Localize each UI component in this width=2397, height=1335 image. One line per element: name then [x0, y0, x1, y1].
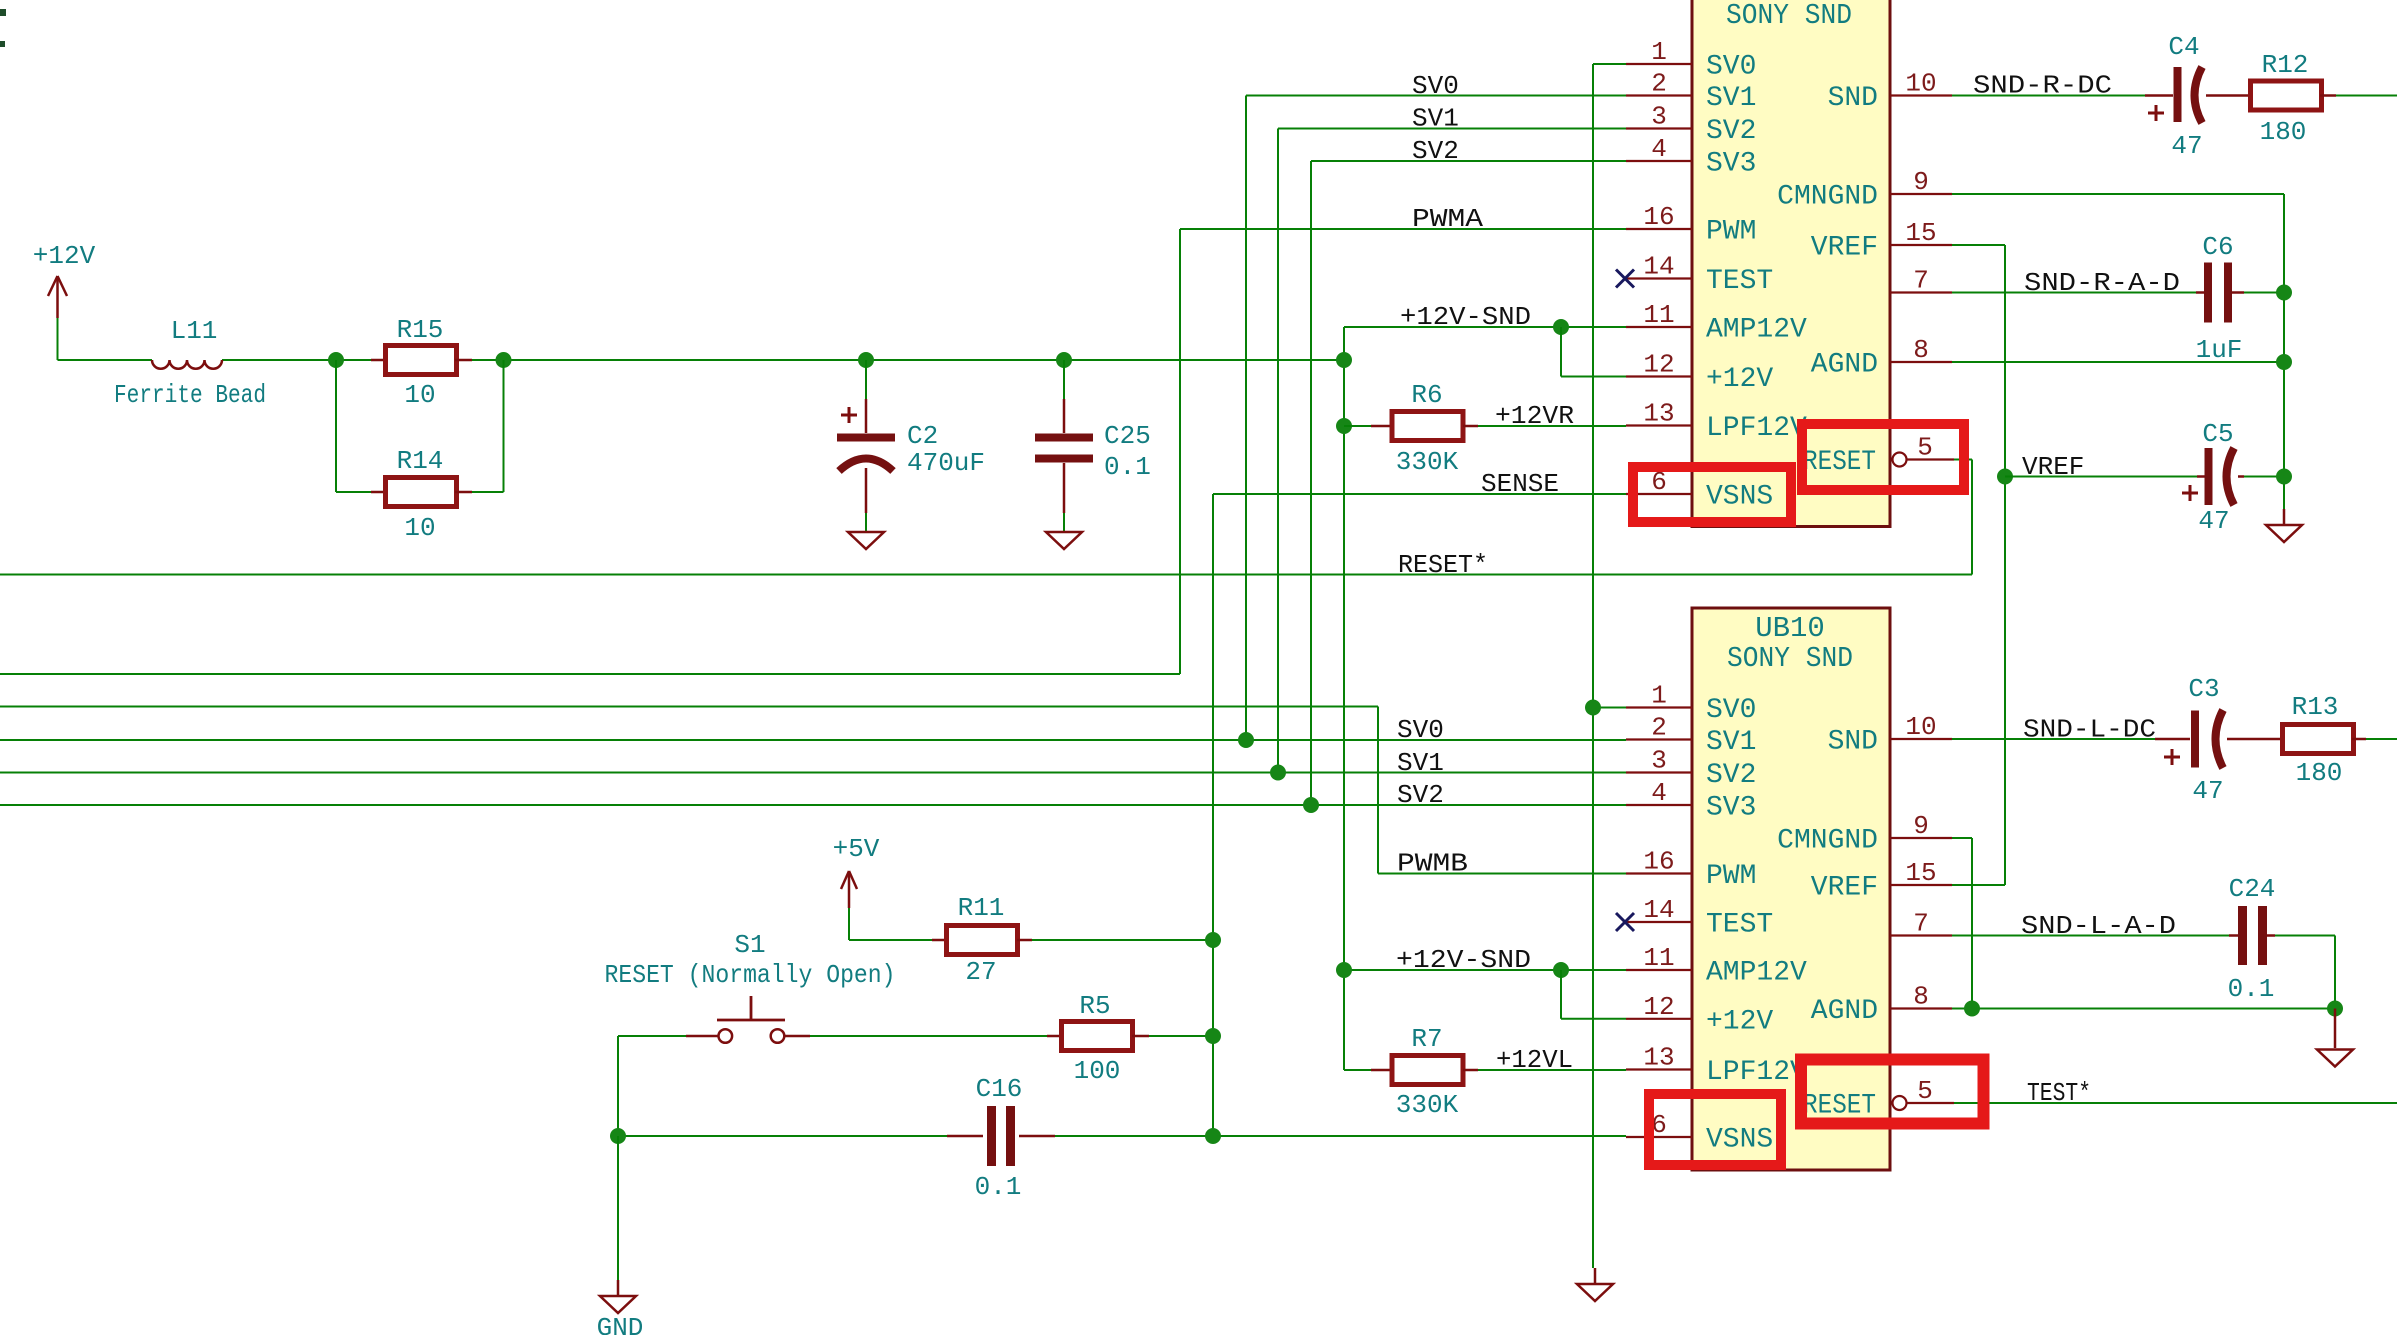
svg-text:13: 13: [1643, 399, 1674, 429]
ground GND left: [597, 1280, 644, 1335]
no-connect X top TEST: [1616, 270, 1634, 288]
svg-text:3: 3: [1651, 746, 1667, 776]
svg-text:+12V-SND: +12V-SND: [1400, 302, 1531, 332]
svg-text:C16: C16: [976, 1074, 1023, 1104]
svg-text:TEST*: TEST*: [2027, 1078, 2091, 1108]
node rail-R15 left: [328, 352, 344, 368]
IC UB10 pin 11 AMP12V: [1626, 943, 1807, 989]
wire left-edge PWMA row: [0, 673, 1180, 675]
net label SND-R-A-D: [2024, 268, 2180, 298]
IC UB10 pin 12 +12V: [1626, 992, 1773, 1038]
svg-text:L11: L11: [171, 316, 218, 346]
svg-text:SV2: SV2: [1706, 760, 1756, 791]
svg-text:UB10: UB10: [1755, 612, 1825, 645]
capacitor C2 470uF: [837, 399, 985, 513]
capacitor C24 0.1: [2228, 874, 2276, 1004]
svg-text:PWMB: PWMB: [1397, 849, 1468, 879]
net label PWMA: [1412, 204, 1483, 234]
node C6 junction: [2276, 285, 2292, 301]
wire SENSE vertical: [1212, 494, 1214, 1136]
switch S1 RESET (Normally Open): [605, 930, 896, 1043]
resistor R14: [371, 446, 472, 543]
svg-text:14: 14: [1643, 895, 1674, 925]
svg-text:16: 16: [1643, 202, 1674, 232]
power symbol +5V: [833, 834, 880, 940]
svg-text:CMNGND: CMNGND: [1777, 182, 1878, 213]
net label SENSE: [1481, 469, 1559, 499]
svg-text:8: 8: [1913, 982, 1929, 1012]
highlight box VSNS bottom: [1649, 1094, 1781, 1165]
wire +12V-SND bottom row: [1344, 969, 1626, 971]
wire PWMA row: [1180, 228, 1626, 230]
svg-text:10: 10: [1905, 712, 1936, 742]
IC U-top pin 16 PWM: [1626, 202, 1756, 248]
svg-text:12: 12: [1643, 992, 1674, 1022]
svg-text:SV2: SV2: [1412, 136, 1459, 166]
svg-text:+12V: +12V: [1706, 364, 1773, 395]
IC UB10 pin 14 TEST: [1626, 895, 1773, 941]
node R5-bus junction: [1205, 1028, 1221, 1044]
wire PWMA vertical: [1179, 229, 1181, 674]
svg-text:3: 3: [1651, 102, 1667, 132]
power symbol +12V: [33, 241, 96, 360]
wire C6 to gnd bus: [2244, 292, 2284, 294]
wire SND top: [1952, 95, 2145, 97]
svg-text:VREF: VREF: [1811, 873, 1878, 904]
IC UB10 pin 9 CMNGND: [1777, 811, 1952, 857]
net label +12VR: [1495, 401, 1574, 431]
resistor R5 100: [1047, 991, 1149, 1086]
net label SND-L-A-D: [2021, 911, 2176, 941]
wire SENSE row: [1213, 493, 1626, 495]
wire R5 row: [810, 1035, 1213, 1037]
svg-text:R11: R11: [958, 893, 1005, 923]
node AGND-CMNGND junction: [1964, 1001, 1980, 1017]
wire SND-L-DC: [1952, 738, 2155, 740]
svg-text:8: 8: [1913, 335, 1929, 365]
resistor R12 180: [2237, 50, 2336, 147]
node R11-bus junction: [1205, 932, 1221, 948]
wire SV2 bottom row: [0, 804, 1626, 806]
wire left-edge PWMB row: [0, 706, 1378, 708]
wire R13 out: [2366, 738, 2397, 740]
svg-text:AGND: AGND: [1811, 350, 1878, 381]
svg-text:4: 4: [1651, 134, 1667, 164]
svg-text:SV1: SV1: [1706, 83, 1756, 114]
svg-text:10: 10: [404, 513, 435, 543]
svg-text:330K: 330K: [1396, 447, 1459, 477]
highlight box RESET top: [1802, 424, 1964, 490]
node +12V-SND bottom left: [1336, 962, 1352, 978]
svg-text:9: 9: [1913, 167, 1929, 197]
svg-text:14: 14: [1643, 252, 1674, 282]
wire SV1 top row: [1278, 128, 1626, 130]
IC U-top pin 1 SV0: [1626, 37, 1756, 83]
node +12V rail end: [1336, 352, 1352, 368]
svg-text:AGND: AGND: [1811, 996, 1878, 1027]
svg-text:TEST: TEST: [1706, 266, 1773, 297]
svg-text:VSNS: VSNS: [1706, 1125, 1773, 1156]
wire pin1 bus vertical: [1593, 64, 1626, 1268]
wire R6 row: [1344, 425, 1626, 427]
wire S1 left: [618, 1036, 686, 1136]
svg-text:SND: SND: [1828, 83, 1878, 114]
svg-text:+12VL: +12VL: [1496, 1045, 1573, 1075]
svg-text:1uF: 1uF: [2196, 335, 2243, 365]
node +12V-SND top junction: [1553, 319, 1569, 335]
svg-text:VSNS: VSNS: [1706, 482, 1773, 513]
svg-text:5: 5: [1917, 433, 1933, 463]
wire SV0 vertical: [1245, 96, 1247, 741]
IC UB10 pin 10 SND: [1828, 712, 1952, 758]
IC UB10 pin 7 (unnamed): [1890, 909, 1952, 939]
svg-text:R14: R14: [397, 446, 444, 476]
svg-text:11: 11: [1643, 943, 1674, 973]
wire CMNGND bottom: [1952, 838, 1972, 1009]
IC U-top pin 5 RESET: [1803, 433, 1954, 479]
net label SV2 top: [1412, 136, 1459, 166]
svg-text:1: 1: [1651, 681, 1667, 711]
svg-text:2: 2: [1651, 713, 1667, 743]
wire VREF bottom row: [1952, 884, 2005, 886]
svg-text:1: 1: [1651, 37, 1667, 67]
wire R14 branch: [336, 360, 504, 492]
svg-text:2: 2: [1651, 69, 1667, 99]
svg-text:47: 47: [2192, 776, 2223, 806]
svg-text:180: 180: [2260, 117, 2307, 147]
highlight box RESET bottom: [1801, 1060, 1984, 1124]
IC U-top pin 8 AGND: [1811, 335, 1952, 381]
svg-text:+12V-SND: +12V-SND: [1396, 945, 1531, 975]
node SV2 junction: [1303, 797, 1319, 813]
svg-text:5: 5: [1917, 1076, 1933, 1106]
wire AGND bottom row: [1952, 1008, 2335, 1010]
svg-text:SV1: SV1: [1412, 104, 1459, 134]
wire SV0 bottom row: [0, 739, 1626, 741]
node AGND junction: [2276, 354, 2292, 370]
wire SND-L-A-D: [1952, 935, 2229, 937]
ground bottom center: [1577, 1268, 1613, 1301]
svg-text:C24: C24: [2229, 874, 2276, 904]
svg-text:LPF12V: LPF12V: [1706, 1057, 1807, 1088]
IC UB10 pin 5 RESET: [1803, 1076, 1954, 1122]
wire C16 row left: [618, 1135, 947, 1137]
highlight box VSNS top: [1633, 467, 1791, 522]
ground C25: [1046, 532, 1082, 549]
svg-text:RESET*: RESET*: [1398, 550, 1488, 580]
wire C16 row right: [1055, 1135, 1626, 1137]
wire SV1 vertical: [1277, 129, 1279, 773]
svg-text:GND: GND: [597, 1313, 644, 1335]
capacitor C4 47 polarized: [2145, 32, 2237, 161]
wire SV1 bottom row: [0, 772, 1626, 774]
wire C25 top: [1063, 360, 1065, 399]
svg-text:SV0: SV0: [1706, 52, 1756, 83]
inductor L11 Ferrite Bead: [114, 316, 266, 410]
node SV0 junction: [1238, 732, 1254, 748]
net label +12VL: [1496, 1045, 1573, 1075]
svg-text:SV3: SV3: [1706, 793, 1756, 824]
wire +12V-SND vertical: [1343, 327, 1345, 1070]
IC U-top pin 15 VREF: [1811, 218, 1952, 264]
svg-text:RESET: RESET: [1803, 1091, 1876, 1122]
wire +12V bottom pin12 link: [1561, 970, 1626, 1019]
ground C2: [848, 532, 884, 549]
IC U-top SONY SND body: [1692, 0, 1890, 527]
IC UB10 SONY SND body: [1692, 608, 1890, 1170]
svg-text:C6: C6: [2202, 232, 2233, 262]
capacitor C5 47 polarized: [2182, 419, 2244, 536]
svg-text:PWMA: PWMA: [1412, 204, 1483, 234]
net label PWMB: [1397, 849, 1468, 879]
svg-text:15: 15: [1905, 218, 1936, 248]
svg-text:RESET (Normally Open): RESET (Normally Open): [605, 960, 896, 990]
svg-text:R13: R13: [2292, 692, 2339, 722]
node SV1 junction: [1270, 765, 1286, 781]
svg-text:27: 27: [965, 957, 996, 987]
svg-text:SV0: SV0: [1412, 71, 1459, 101]
svg-text:PWM: PWM: [1706, 861, 1756, 892]
resistor R6 330K: [1371, 380, 1478, 477]
svg-text:S1: S1: [734, 930, 765, 960]
svg-text:SND-L-DC: SND-L-DC: [2023, 715, 2156, 745]
svg-text:C25: C25: [1104, 421, 1151, 451]
svg-text:SV1: SV1: [1397, 748, 1444, 778]
wire +12V-SND top row: [1344, 326, 1626, 328]
svg-text:4: 4: [1651, 778, 1667, 808]
resistor R11 27: [932, 893, 1032, 987]
wire CMNGND top: [1952, 194, 2284, 524]
svg-text:R6: R6: [1411, 380, 1442, 410]
node VREF junction: [1997, 469, 2013, 485]
resistor R13 180: [2268, 692, 2366, 788]
IC U-top pin 12 +12V: [1626, 350, 1773, 396]
svg-text:330K: 330K: [1396, 1090, 1459, 1120]
node rail-C2: [858, 352, 874, 368]
svg-text:C2: C2: [907, 421, 938, 451]
svg-text:SV1: SV1: [1706, 727, 1756, 758]
node C5 junction: [2276, 469, 2292, 485]
IC U-top pin 7 (unnamed): [1890, 266, 1952, 296]
svg-text:470uF: 470uF: [907, 448, 985, 478]
svg-text:10: 10: [1905, 69, 1936, 99]
resistor R15: [371, 315, 472, 410]
wire C25 bottom: [1063, 513, 1065, 531]
IC UB10 pin 16 PWM: [1626, 847, 1756, 893]
net label SV1 bottom: [1397, 748, 1444, 778]
wire GND left drop: [617, 1136, 619, 1280]
svg-text:0.1: 0.1: [2228, 974, 2275, 1004]
wire +12V rail: [58, 359, 1345, 361]
wire SV2 top row: [1311, 160, 1626, 162]
svg-text:0.1: 0.1: [975, 1172, 1022, 1202]
node VSNS bus junction: [1205, 1128, 1221, 1144]
node +12V-SND bottom junction: [1553, 962, 1569, 978]
wire VREF row: [2005, 476, 2197, 478]
ground right bus: [2266, 525, 2302, 542]
svg-text:SV2: SV2: [1706, 116, 1756, 147]
svg-text:SONY SND: SONY SND: [1726, 0, 1852, 32]
capacitor C3 47 polarized: [2155, 674, 2268, 806]
svg-text:SND: SND: [1828, 727, 1878, 758]
net label SV0 top: [1412, 71, 1459, 101]
net label +12V-SND top: [1400, 302, 1531, 332]
node R6 row junction: [1336, 418, 1352, 434]
svg-text:C4: C4: [2168, 32, 2199, 62]
svg-text:+5V: +5V: [833, 834, 880, 864]
svg-text:R15: R15: [397, 315, 444, 345]
svg-text:16: 16: [1643, 847, 1674, 877]
svg-text:12: 12: [1643, 350, 1674, 380]
IC U-top pin 4 SV3: [1626, 134, 1756, 180]
resistor R7 330K: [1371, 1024, 1478, 1120]
svg-text:TEST: TEST: [1706, 910, 1773, 941]
svg-text:PWM: PWM: [1706, 217, 1756, 248]
svg-text:+12V: +12V: [1706, 1006, 1773, 1037]
IC UB10 pin 3 SV2: [1626, 746, 1756, 792]
svg-text:SV3: SV3: [1706, 149, 1756, 180]
net label VREF: [2022, 452, 2084, 482]
svg-text:Ferrite Bead: Ferrite Bead: [114, 380, 266, 410]
IC U-top pin 10 SND: [1828, 69, 1952, 115]
svg-text:180: 180: [2296, 758, 2343, 788]
node pin1 bottom junction: [1585, 700, 1601, 716]
svg-text:R5: R5: [1079, 991, 1110, 1021]
svg-text:CMNGND: CMNGND: [1777, 826, 1878, 857]
IC U-top pin 11 AMP12V: [1626, 300, 1807, 346]
wire C5 to gnd bus: [2244, 476, 2284, 478]
node AGND-C24 junction: [2327, 1001, 2343, 1017]
IC UB10 pin 4 SV3: [1626, 778, 1756, 824]
node rail-R15 right: [496, 352, 512, 368]
svg-text:R7: R7: [1411, 1024, 1442, 1054]
node rail-C25: [1056, 352, 1072, 368]
IC U-top pin 3 SV2: [1626, 102, 1756, 148]
wire R7 row: [1344, 1069, 1626, 1071]
net label SND-R-DC: [1973, 71, 2112, 101]
no-connect X bottom TEST: [1616, 913, 1634, 931]
capacitor C16 0.1: [947, 1074, 1055, 1202]
svg-text:RESET: RESET: [1803, 447, 1876, 478]
svg-text:SV0: SV0: [1706, 695, 1756, 726]
IC UB10 pin 2 SV1: [1626, 713, 1756, 759]
wire RESET* net: [0, 460, 1972, 575]
svg-text:9: 9: [1913, 811, 1929, 841]
wire SND-R-A-D: [1952, 292, 2196, 294]
svg-text:10: 10: [404, 380, 435, 410]
net label SV2 bottom: [1397, 780, 1444, 810]
svg-text:SND-L-A-D: SND-L-A-D: [2021, 911, 2176, 941]
svg-text:SV0: SV0: [1397, 715, 1444, 745]
wire R12 out: [2336, 95, 2397, 97]
wire +12V top pin12 link: [1561, 327, 1626, 377]
svg-text:11: 11: [1643, 300, 1674, 330]
svg-text:AMP12V: AMP12V: [1706, 958, 1807, 989]
svg-text:LPF12V: LPF12V: [1706, 413, 1807, 444]
svg-text:+12V: +12V: [33, 241, 96, 271]
svg-text:SONY SND: SONY SND: [1727, 642, 1853, 675]
wire C2 top: [865, 360, 867, 399]
net label +12V-SND bottom: [1396, 945, 1531, 975]
wire VREF vertical: [1952, 245, 2005, 885]
IC UB10 pin 15 VREF: [1811, 858, 1952, 904]
wire PWMB vertical: [1377, 707, 1379, 874]
IC U-top pin 13 LPF12V: [1626, 399, 1807, 445]
IC UB10 pin 13 LPF12V: [1626, 1043, 1807, 1089]
net label RESET*: [1398, 550, 1488, 580]
svg-text:VREF: VREF: [1811, 233, 1878, 264]
svg-text:SV2: SV2: [1397, 780, 1444, 810]
node C16 left junction: [610, 1128, 626, 1144]
top-left clipped text fragment 2: [0, 41, 5, 47]
svg-text:7: 7: [1913, 266, 1929, 296]
ground AGND bottom: [2317, 1009, 2353, 1067]
svg-text:47: 47: [2171, 131, 2202, 161]
net label TEST*: [2027, 1078, 2091, 1108]
svg-text:47: 47: [2198, 506, 2229, 536]
svg-text:C3: C3: [2188, 674, 2219, 704]
wire C24 drop: [2275, 936, 2335, 1009]
wire SV2 vertical: [1310, 161, 1312, 805]
svg-text:SND-R-A-D: SND-R-A-D: [2024, 268, 2180, 298]
net label SND-L-DC: [2023, 715, 2156, 745]
svg-text:0.1: 0.1: [1104, 452, 1151, 482]
net label SV1 top: [1412, 104, 1459, 134]
wire AGND top: [1952, 361, 2284, 363]
svg-text:SENSE: SENSE: [1481, 469, 1559, 499]
wire C2 bottom: [865, 513, 867, 531]
wire R11 row: [849, 939, 1213, 941]
svg-text:7: 7: [1913, 909, 1929, 939]
wire SV0 top row: [1246, 95, 1626, 97]
IC UB10 pin 1 SV0: [1626, 681, 1756, 727]
svg-text:AMP12V: AMP12V: [1706, 315, 1807, 346]
svg-text:100: 100: [1074, 1056, 1121, 1086]
wire TEST* row: [1954, 1102, 2397, 1104]
net label SV0 bottom: [1397, 715, 1444, 745]
capacitor C6 1uF: [2196, 232, 2244, 365]
IC U-top pin 14 TEST: [1626, 252, 1773, 298]
svg-text:C5: C5: [2202, 419, 2233, 449]
IC U-top pin 6 VSNS: [1626, 467, 1773, 513]
IC UB10 pin 8 AGND: [1811, 982, 1952, 1028]
svg-text:13: 13: [1643, 1043, 1674, 1073]
svg-text:+12VR: +12VR: [1495, 401, 1574, 431]
svg-text:SND-R-DC: SND-R-DC: [1973, 71, 2112, 101]
top-left clipped text fragment 1: [0, 9, 6, 16]
capacitor C25 0.1: [1035, 399, 1151, 513]
svg-text:15: 15: [1905, 858, 1936, 888]
IC U-top pin 2 SV1: [1626, 69, 1756, 115]
wire PWMB row: [1378, 873, 1626, 875]
IC UB10 pin 6 VSNS: [1626, 1110, 1773, 1156]
svg-text:R12: R12: [2262, 50, 2309, 80]
IC U-top pin 9 CMNGND: [1777, 167, 1952, 213]
